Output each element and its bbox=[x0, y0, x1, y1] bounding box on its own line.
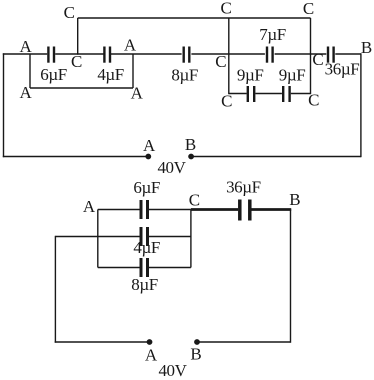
wire: A-A shorting box bottom bbox=[30, 87, 133, 89]
wire: bottom branch left (A rail to 8uF) bbox=[98, 267, 140, 269]
wire: right outer vertical (B lead down) bbox=[290, 209, 292, 343]
svg-text:C: C bbox=[189, 191, 200, 210]
wire: bottom branch right (8uF to C rail) bbox=[149, 267, 191, 269]
svg-text:7µF: 7µF bbox=[259, 25, 286, 44]
wire: top branch right (6uF to C rail) bbox=[149, 209, 191, 211]
svg-text:4µF: 4µF bbox=[133, 238, 160, 257]
svg-text:B: B bbox=[190, 345, 201, 364]
node terminal B dot (bottom circuit) bbox=[194, 339, 200, 345]
node terminal A dot (top circuit) bbox=[145, 154, 151, 160]
capacitor 4uF (bottom circuit) bbox=[141, 227, 148, 246]
svg-text:A: A bbox=[83, 197, 96, 216]
svg-text:C: C bbox=[308, 91, 319, 110]
wire: right outer vertical from B bbox=[360, 53, 362, 157]
svg-text:9µF: 9µF bbox=[279, 66, 306, 85]
wire: between the two 9uF caps bbox=[255, 93, 282, 95]
wire: 36uF to B corner bbox=[335, 53, 361, 55]
wire: 9uF row C to first 9uF bbox=[229, 93, 247, 95]
svg-text:C: C bbox=[221, 92, 232, 111]
capacitor 8uF (top circuit) bbox=[184, 47, 190, 63]
svg-text:8µF: 8µF bbox=[171, 66, 198, 85]
svg-text:4µF: 4µF bbox=[97, 65, 124, 84]
svg-text:B: B bbox=[289, 190, 300, 209]
wire: drop from C bus through main wire to 9uF row (mid) bbox=[228, 18, 230, 94]
svg-text:A: A bbox=[124, 36, 137, 55]
wire: thick lead C to 36uF (bottom circuit) bbox=[191, 208, 238, 211]
svg-text:6µF: 6µF bbox=[133, 178, 160, 197]
wire: 7uF to 36uF bbox=[275, 53, 327, 55]
svg-text:C: C bbox=[215, 52, 226, 71]
capacitor 8uF (bottom circuit) bbox=[141, 258, 148, 277]
node terminal B dot (top circuit) bbox=[188, 154, 194, 160]
wire: left outer vertical (A lead down) bbox=[54, 236, 56, 343]
svg-text:36µF: 36µF bbox=[226, 178, 261, 197]
capacitor 9uF right (top circuit, bottom row) bbox=[283, 86, 289, 102]
wire: 8uF to 7uF bbox=[191, 53, 265, 55]
svg-text:40V: 40V bbox=[158, 361, 187, 380]
svg-text:C: C bbox=[71, 52, 82, 71]
wire: thick lead 36uF to B corner (bottom circuit) bbox=[252, 208, 292, 211]
capacitor 7uF (top circuit) bbox=[267, 47, 273, 63]
svg-text:A: A bbox=[19, 37, 32, 56]
capacitor 6uF (bottom circuit) bbox=[141, 200, 148, 219]
svg-text:A: A bbox=[19, 83, 32, 102]
wire: left outer vertical from A bbox=[3, 53, 5, 157]
svg-text:C: C bbox=[303, 0, 314, 18]
wire: top branch left (A rail to 6uF) bbox=[98, 209, 140, 211]
svg-text:A: A bbox=[131, 84, 144, 103]
svg-text:9µF: 9µF bbox=[237, 66, 264, 85]
wire: drop from C bus through main wire to 9uF row (right) bbox=[310, 18, 312, 94]
svg-text:8µF: 8µF bbox=[131, 275, 158, 294]
wire: A-A shorting box right side bbox=[132, 54, 134, 88]
wire: middle branch from outer left to 4uF bbox=[55, 236, 139, 238]
wire: drop from C bus to main wire at left C bbox=[77, 18, 79, 55]
wire: bottom wire to terminal A (bottom circuit) bbox=[55, 341, 150, 343]
wire: second 9uF to right C bbox=[291, 93, 311, 95]
wire: right rail C bbox=[190, 210, 192, 268]
wire: 4uF to 8uF bbox=[111, 53, 182, 55]
capacitor 4uF (top circuit) bbox=[104, 47, 110, 63]
wire: left rail A bbox=[97, 210, 99, 268]
svg-text:B: B bbox=[185, 135, 196, 154]
svg-text:40V: 40V bbox=[157, 158, 186, 177]
svg-text:C: C bbox=[64, 3, 75, 22]
svg-text:36µF: 36µF bbox=[325, 60, 360, 79]
wire: top C bus bbox=[78, 17, 311, 19]
wire: bottom wire from terminal B (top circuit) bbox=[191, 156, 361, 158]
capacitor 9uF left (top circuit, bottom row) bbox=[248, 86, 254, 102]
svg-text:A: A bbox=[143, 136, 156, 155]
capacitor 6uF (top circuit) bbox=[48, 47, 54, 63]
wire: middle branch 4uF to C rail bbox=[149, 236, 191, 238]
svg-text:B: B bbox=[361, 38, 372, 57]
svg-text:C: C bbox=[221, 0, 232, 18]
wire: A to 6uF bbox=[3, 53, 47, 55]
wire: bottom wire to terminal A (top circuit) bbox=[3, 156, 149, 158]
svg-text:A: A bbox=[145, 346, 158, 365]
svg-text:C: C bbox=[312, 50, 323, 69]
wire: bottom wire from terminal B (bottom circuit) bbox=[197, 341, 291, 343]
node terminal A dot (bottom circuit) bbox=[147, 339, 153, 345]
wire: A-A shorting box left side bbox=[29, 54, 31, 88]
wire: 6uF to 4uF bbox=[55, 53, 104, 55]
capacitor 36uF (bottom circuit) bbox=[240, 200, 250, 221]
capacitor 36uF (top circuit) bbox=[328, 47, 334, 63]
svg-text:6µF: 6µF bbox=[40, 65, 67, 84]
